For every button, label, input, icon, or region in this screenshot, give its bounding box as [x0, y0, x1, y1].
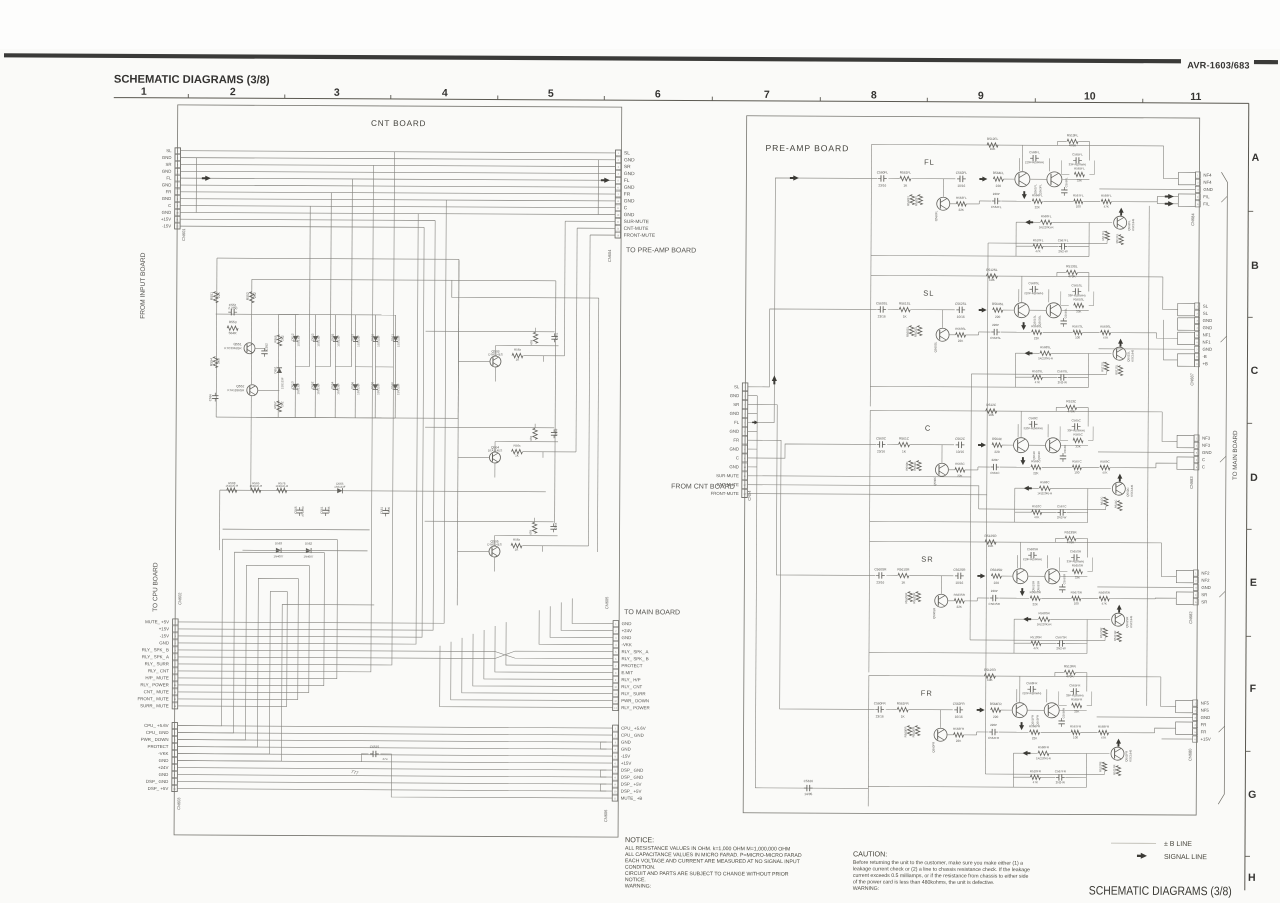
- top rail wire: [869, 675, 1161, 676]
- svg-text:FR: FR: [921, 689, 933, 698]
- svg-text:11: 11: [1190, 91, 1201, 103]
- svg-text:C567C: C567C: [1057, 504, 1067, 508]
- capacitor C564FR 220P: [989, 731, 992, 733]
- resistor R564C 220: [992, 443, 1002, 447]
- CNT board outline: [174, 105, 622, 837]
- svg-text:R562FR: R562FR: [912, 727, 916, 738]
- svg-text:NF4: NF4: [1203, 173, 1212, 178]
- signal arrow on FL line left: [202, 177, 207, 179]
- capacitor C564C 220P: [991, 466, 994, 468]
- wire GND pin feed: [1097, 716, 1193, 718]
- wire pair top stubs: [1018, 289, 1020, 302]
- svg-text:47K: 47K: [530, 340, 534, 345]
- wire second line: [999, 597, 1029, 599]
- signal arrow output pin 4: [1165, 195, 1170, 197]
- svg-text:R564FL: R564FL: [993, 171, 1005, 175]
- wire NF feed to pins: [1161, 677, 1176, 707]
- svg-text:D551: D551: [273, 366, 277, 374]
- svg-text:GND: GND: [1203, 318, 1213, 323]
- capacitor C567FR 2N2-W: [1056, 776, 1059, 778]
- svg-text:100: 100: [1074, 470, 1079, 474]
- wire MUTE_+5V riser: [178, 199, 446, 624]
- svg-text:D553: D553: [311, 333, 315, 341]
- svg-text:SCHEMATIC DIAGRAMS (3/8): SCHEMATIC DIAGRAMS (3/8): [114, 74, 270, 87]
- wire mute stub C: [979, 508, 1106, 511]
- connector CN605: [613, 621, 619, 711]
- svg-text:SR: SR: [921, 555, 933, 564]
- svg-text:1K(220K)-R: 1K(220K)-R: [1037, 622, 1052, 626]
- vertical rail left: [867, 675, 870, 806]
- wires into CN605: [572, 598, 613, 623]
- signal arrow feedback: [1027, 618, 1031, 620]
- svg-text:6: 6: [655, 88, 661, 100]
- svg-text:R560SL: R560SL: [906, 326, 910, 337]
- transistor Q560FR KTC3346: [934, 728, 947, 741]
- svg-text:R563SR: R563SR: [954, 593, 966, 597]
- svg-text:D554: D554: [330, 381, 334, 389]
- ruler tick: [497, 96, 499, 100]
- vertical rail left: [868, 541, 871, 672]
- capacitor decouple: [553, 523, 555, 526]
- svg-text:NF4: NF4: [1203, 180, 1212, 185]
- vertical rail left: [869, 275, 872, 406]
- svg-text:NF1: NF1: [1203, 332, 1212, 337]
- resistor R568SR 1K(220K)-R: [1039, 617, 1050, 621]
- svg-text:CN605: CN605: [604, 596, 609, 609]
- resistor R511FL 470(NC)-R: [1119, 235, 1123, 245]
- cable join diagonal D: [1219, 591, 1225, 597]
- svg-text:470K: 470K: [1069, 143, 1077, 147]
- svg-text:RLY_ CNT: RLY_ CNT: [148, 668, 169, 673]
- svg-text:C560C: C560C: [876, 436, 887, 440]
- wire output to pair: [1156, 463, 1177, 468]
- wire input segment: [888, 308, 899, 310]
- svg-text:1SS133F: 1SS133F: [334, 485, 346, 489]
- wire feedback box: [1060, 160, 1062, 174]
- transistor Q560SL KTC3346: [936, 328, 949, 341]
- svg-text:1K(220K)-R: 1K(220K)-R: [1038, 356, 1053, 360]
- svg-text:10/16: 10/16: [955, 581, 963, 585]
- wire transistor link: [255, 347, 265, 349]
- wire mute link: [1104, 638, 1106, 641]
- svg-text:10K: 10K: [988, 544, 995, 548]
- wire second line: [1001, 331, 1031, 333]
- svg-text:C564C: C564C: [990, 471, 1000, 475]
- resistor R569C 47K: [1100, 465, 1110, 469]
- capacitor C560FL 23/16: [878, 177, 881, 179]
- svg-text:FRONT-MUTE: FRONT-MUTE: [624, 233, 655, 239]
- resistor R576 1K2(1K)-R: [277, 488, 287, 492]
- svg-text:D561: D561: [391, 334, 395, 342]
- wire channel bottom rail: [869, 652, 1087, 653]
- capacitor C560SL 23/16: [877, 308, 880, 310]
- svg-text:GND: GND: [1201, 585, 1211, 590]
- wire bundle verticals right side: [563, 221, 566, 356]
- svg-text:1SS133F: 1SS133F: [396, 383, 400, 395]
- svg-text:R563C: R563C: [955, 462, 965, 466]
- wire vertical x557: [555, 281, 556, 523]
- svg-text:SL: SL: [166, 148, 172, 153]
- capacitor C562FL 10/16: [957, 178, 960, 180]
- svg-text:+15V: +15V: [159, 626, 169, 631]
- wire GND stub: [747, 466, 757, 468]
- svg-text:C563: C563: [554, 428, 558, 436]
- svg-text:R566FR: R566FR: [1029, 724, 1041, 728]
- top rule bar right stub: [1254, 60, 1278, 64]
- signal arrow up: [1118, 742, 1120, 746]
- wire to output: [1111, 332, 1157, 334]
- svg-text:R552: R552: [246, 292, 250, 300]
- svg-text:2N2-W: 2N2-W: [1058, 380, 1068, 384]
- wire NF feed to pins: [1162, 412, 1177, 442]
- resistor R560FR 100K: [907, 726, 911, 736]
- svg-text:22K: 22K: [217, 291, 221, 298]
- wire vertical dropper: [308, 206, 311, 366]
- wire RLY_SURR riser: [178, 151, 395, 665]
- resistor R510FL 47K: [1033, 244, 1043, 248]
- transistor Q561SL KTC3346GR: [1014, 303, 1029, 318]
- svg-text:+15V: +15V: [1201, 737, 1211, 742]
- wire emitter down stub: [494, 367, 496, 381]
- wire diode column: [374, 315, 377, 418]
- signal arrow mid: [977, 575, 981, 577]
- resistor R553 564R: [227, 326, 238, 330]
- wire channel bottom rail: [871, 255, 1089, 256]
- resistor R561FR 1K: [897, 707, 908, 711]
- svg-text:GND: GND: [162, 169, 172, 174]
- svg-text:C562C: C562C: [955, 437, 966, 441]
- connector CN682: [1193, 570, 1198, 576]
- svg-text:220P-R(56WH): 220P-R(56WH): [1024, 291, 1043, 295]
- wire pair top stubs: [1017, 424, 1019, 437]
- resistor R567FL 100: [1074, 199, 1083, 203]
- svg-text:220: 220: [994, 581, 1000, 585]
- svg-text:33K: 33K: [1074, 709, 1079, 713]
- resistor R565FL 33K: [1074, 172, 1084, 176]
- resistor R561FL 1K: [900, 176, 911, 180]
- svg-text:CN680: CN680: [1187, 748, 1192, 761]
- svg-text:-15V: -15V: [162, 224, 171, 229]
- signal arrow mid: [977, 709, 981, 711]
- svg-text:D552: D552: [310, 381, 314, 389]
- cable join diagonal B: [1221, 336, 1227, 342]
- svg-text:47K: 47K: [1035, 249, 1040, 253]
- wire feedback box: [1060, 291, 1062, 305]
- svg-text:C568C: C568C: [1028, 416, 1038, 420]
- svg-text:SL: SL: [734, 384, 740, 389]
- resistor R560FL 100K: [910, 195, 914, 205]
- wire pair link: [1030, 309, 1047, 311]
- transistor Q562FL KSC1845: [1114, 216, 1127, 229]
- svg-text:220: 220: [996, 184, 1002, 188]
- svg-text:FL: FL: [924, 158, 935, 167]
- transistor Q560C KTC3346: [935, 463, 948, 476]
- capacitor C560SR 23/16: [876, 574, 879, 576]
- svg-text:7: 7: [764, 89, 770, 101]
- resistor R568 1K2(1K)-R: [227, 488, 237, 492]
- wire output to pair: [1155, 728, 1176, 733]
- svg-text:PROTECT: PROTECT: [621, 663, 642, 668]
- svg-text:C: C: [168, 203, 171, 208]
- wire input segment: [888, 177, 899, 179]
- resistor R560SL 100K: [909, 326, 913, 336]
- ruler tick: [187, 94, 189, 98]
- resistor R517FL 47(NC)-W: [1105, 231, 1109, 240]
- wire output to pair: [1157, 333, 1178, 339]
- svg-text:CPU_ GND: CPU_ GND: [621, 733, 644, 738]
- resistor base 1K: [511, 449, 522, 453]
- svg-text:R567FL: R567FL: [1073, 193, 1084, 197]
- ruler tick: [1247, 422, 1252, 424]
- resistor R562FR 100K: [915, 726, 919, 736]
- svg-text:C568SR: C568SR: [1027, 547, 1039, 551]
- resistor R565C 33K: [1073, 438, 1083, 442]
- capacitor C552: [264, 348, 266, 351]
- svg-text:R567SL: R567SL: [1072, 324, 1083, 328]
- top rail wire: [871, 275, 1163, 276]
- transistor Q562C KSC1845: [1112, 482, 1125, 495]
- svg-text:R511FR: R511FR: [1112, 765, 1116, 775]
- transistor Q563FR KTC3346GR: [1044, 703, 1059, 718]
- svg-text:GND: GND: [1202, 450, 1212, 455]
- svg-text:C568SL: C568SL: [1028, 281, 1039, 285]
- connector CN606: [612, 725, 618, 801]
- resistor R551 22K: [214, 292, 218, 303]
- svg-text:WARNING:: WARNING:: [853, 886, 879, 892]
- svg-text:1: 1: [141, 86, 147, 98]
- capacitor C556: [214, 393, 216, 396]
- wire GND pin feed: [1098, 451, 1194, 453]
- svg-text:1SS133F: 1SS133F: [296, 383, 300, 395]
- svg-text:R561FL: R561FL: [900, 171, 912, 175]
- wire lower box mid: [1015, 511, 1032, 513]
- svg-text:KSC1845: KSC1845: [1129, 615, 1133, 627]
- bracket ties on CN606 ground pins: [600, 742, 606, 749]
- feedback lower box wires: [1014, 618, 1038, 620]
- wire NF feed to pins: [1163, 146, 1178, 179]
- wire FRONT-MUTE feed: [590, 234, 615, 236]
- signal arrow down: [1021, 588, 1023, 592]
- wire bottom rail y416: [256, 416, 395, 419]
- capacitor C566FR vertical: [1061, 718, 1063, 721]
- svg-text:CN54: CN54: [747, 490, 752, 501]
- wire CNT-MUTE feed: [577, 227, 615, 229]
- svg-text:CN602: CN602: [177, 592, 182, 605]
- svg-text:PROTECT: PROTECT: [148, 744, 169, 749]
- wire RLY_SPK_B straight: [178, 650, 495, 652]
- svg-text:R557: R557: [273, 401, 277, 409]
- ruler tick: [711, 97, 713, 101]
- wire cluster box right edge: [457, 259, 460, 418]
- wire mute link: [1105, 372, 1107, 375]
- resistor R569SR 47K: [1099, 596, 1109, 600]
- svg-text:E: E: [1250, 577, 1257, 589]
- diode D556 1SS133: [353, 384, 358, 389]
- svg-text:R565C: R565C: [1073, 432, 1083, 436]
- svg-text:R562C: R562C: [913, 462, 917, 471]
- wire diode column: [334, 315, 337, 418]
- top rail wire: [870, 410, 1162, 411]
- svg-text:C561: C561: [555, 332, 559, 340]
- svg-text:D557: D557: [351, 333, 355, 341]
- signal arrow mid: [979, 309, 983, 311]
- svg-text:KTA1266GR: KTA1266GR: [227, 388, 245, 392]
- signal arrow output pin 5: [1165, 203, 1170, 205]
- resistor R561SR 1K: [898, 573, 909, 577]
- wire rail y295 branch: [452, 280, 599, 298]
- transistor Q503 DTA114ES: [490, 356, 501, 367]
- svg-text:FR: FR: [166, 189, 172, 194]
- wire mute stub FL: [988, 242, 1107, 245]
- signal arrow mid: [978, 444, 982, 446]
- svg-text:1N4007: 1N4007: [274, 554, 284, 558]
- wire right out: [523, 451, 576, 453]
- svg-text:DSP_ +5V: DSP_ +5V: [621, 782, 642, 787]
- svg-text:R561C: R561C: [899, 437, 910, 441]
- svg-text:SL: SL: [624, 150, 630, 156]
- svg-text:R560C: R560C: [905, 462, 909, 471]
- svg-text:R569FL: R569FL: [1101, 194, 1112, 198]
- svg-text:C560FR: C560FR: [874, 701, 887, 705]
- svg-text:1SS133F: 1SS133F: [397, 335, 401, 347]
- wire pair link: [1030, 178, 1047, 180]
- resistor R512FL 10K: [987, 143, 998, 147]
- signal arrow feedback: [1029, 221, 1033, 223]
- wire NF feed to pins: [1163, 277, 1178, 310]
- svg-text:C567SR: C567SR: [1055, 635, 1067, 639]
- svg-text:C565FR: C565FR: [1069, 683, 1081, 687]
- wire collector: [494, 536, 496, 546]
- resistor R565SL 33K: [1074, 303, 1084, 307]
- svg-text:GND: GND: [621, 740, 631, 745]
- svg-text:FL: FL: [166, 176, 172, 181]
- svg-text:R511SR: R511SR: [1113, 631, 1117, 641]
- capacitor C568SR 220P-R(56WH): [1028, 554, 1031, 556]
- resistor R511C 470(NC)-R: [1118, 501, 1122, 511]
- svg-text:FRONT_ MUTE: FRONT_ MUTE: [137, 696, 168, 701]
- svg-text:R566SR: R566SR: [1030, 590, 1042, 594]
- svg-text:PWR_ DOWN: PWR_ DOWN: [141, 737, 169, 742]
- resistor R512SL 10K: [986, 274, 997, 278]
- legend signal arrow: [1137, 855, 1142, 857]
- svg-text:47K: 47K: [1102, 471, 1107, 475]
- svg-text:14/35: 14/35: [804, 792, 812, 796]
- svg-text:NF2: NF2: [1201, 571, 1210, 576]
- svg-text:MUTE_ +5V: MUTE_ +5V: [145, 619, 169, 624]
- svg-text:GND: GND: [729, 446, 739, 451]
- capacitor C562FR 10/16: [954, 709, 957, 711]
- svg-text:R563FR: R563FR: [953, 727, 965, 731]
- diode D551 1SS133: [277, 368, 282, 373]
- wire vertical x578: [576, 228, 577, 452]
- resistor R511SR 470(NC)-R: [1117, 632, 1121, 642]
- svg-text:3: 3: [334, 87, 340, 99]
- svg-text:470K: 470K: [1067, 540, 1075, 544]
- wire pair top stubs: [1016, 555, 1018, 568]
- svg-text:GND: GND: [730, 393, 740, 398]
- feedback lower box wires: [1016, 221, 1040, 223]
- svg-text:FL: FL: [734, 420, 740, 425]
- wire GND stub: [747, 430, 757, 432]
- wire lower box mid: [1015, 376, 1032, 378]
- wire GND pin feed: [1099, 348, 1195, 350]
- svg-text:FR: FR: [624, 192, 631, 198]
- svg-text:220P: 220P: [990, 723, 997, 727]
- svg-text:R563SL: R563SL: [955, 327, 966, 331]
- ruler tick: [1246, 635, 1251, 637]
- feedback lower box wires: [1013, 752, 1037, 754]
- svg-text:SL: SL: [1203, 311, 1209, 316]
- svg-text:2.2/50: 2.2/50: [228, 306, 237, 310]
- resistor R561SL 1K: [899, 307, 910, 311]
- svg-text:CNT-MUTE: CNT-MUTE: [624, 226, 649, 232]
- svg-text:E.MIT: E.MIT: [621, 670, 633, 675]
- signal arrow down: [1023, 322, 1025, 326]
- wire junction drop: [942, 310, 944, 328]
- svg-text:CN682: CN682: [1188, 611, 1193, 624]
- svg-text:CNT BOARD: CNT BOARD: [371, 119, 426, 128]
- wire mid link: [947, 734, 954, 736]
- svg-text:1SS133F: 1SS133F: [377, 335, 381, 347]
- wire -B pair stub: [1163, 320, 1177, 360]
- svg-text:GND: GND: [162, 155, 172, 160]
- connector CN687: [1195, 303, 1200, 309]
- svg-text:R567FR: R567FR: [1070, 724, 1082, 728]
- svg-text:GND: GND: [162, 196, 172, 201]
- svg-text:1K2(1K)-R: 1K2(1K)-R: [249, 484, 262, 488]
- svg-text:R513C: R513C: [1066, 399, 1077, 403]
- top rail wire: [870, 541, 1162, 542]
- svg-text:D513: D513: [290, 381, 294, 389]
- svg-text:NOTICE.: NOTICE.: [625, 877, 646, 883]
- svg-text:100: 100: [1076, 204, 1081, 208]
- svg-text:+24V: +24V: [622, 628, 632, 633]
- svg-text:C564SL: C564SL: [990, 336, 1001, 340]
- svg-text:R56x: R56x: [514, 444, 522, 448]
- signal arrow down: [1022, 457, 1024, 461]
- wire mute stub SL: [971, 373, 1106, 376]
- wire emitter left: [458, 456, 489, 458]
- wire input segment: [886, 574, 897, 576]
- svg-text:FROM CNT BOARD: FROM CNT BOARD: [671, 483, 735, 490]
- wire RLY_POWER riser: [178, 552, 325, 686]
- svg-text:2K2: 2K2: [253, 292, 257, 298]
- svg-text:SR: SR: [733, 402, 739, 407]
- resistor R511SL 470(NC)-R: [1118, 366, 1122, 376]
- crossover wire RLY_SPK 1: [495, 652, 613, 659]
- resistor R568C 1K(220K)-R: [1039, 486, 1050, 490]
- svg-text:R517FL: R517FL: [1101, 230, 1105, 240]
- resistor R567SL 100: [1073, 330, 1082, 334]
- ruler tick: [390, 95, 392, 99]
- svg-text:GND: GND: [730, 411, 740, 416]
- svg-text:CN684: CN684: [1190, 213, 1195, 226]
- svg-text:DSP_ +5V: DSP_ +5V: [148, 786, 169, 791]
- wire top tie: [425, 426, 554, 429]
- svg-text:DSP_ GND: DSP_ GND: [621, 775, 643, 780]
- wire feedback box: [1058, 557, 1060, 571]
- wire lower box mid: [1016, 245, 1033, 247]
- svg-text:B: B: [1251, 260, 1259, 272]
- svg-text:R568FR: R568FR: [1038, 745, 1050, 749]
- capacitor C568FL 220P-R(56WH): [1030, 157, 1033, 159]
- svg-text:220: 220: [993, 715, 999, 719]
- resistor R517C 47(NC)-W: [1104, 497, 1108, 506]
- resistor base 1K: [511, 543, 522, 547]
- svg-text:R568SR: R568SR: [1039, 611, 1051, 615]
- svg-text:2K2: 2K2: [281, 335, 285, 341]
- svg-text:C566C: C566C: [1063, 445, 1067, 454]
